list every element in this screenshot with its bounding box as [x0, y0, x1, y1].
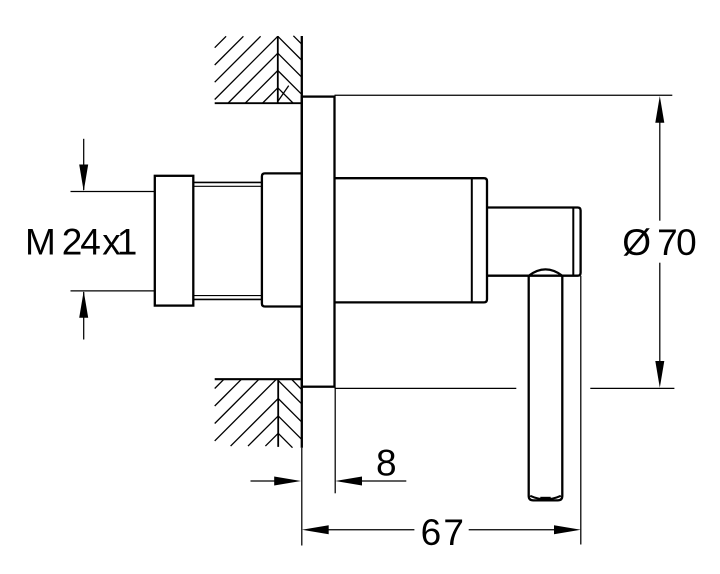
sleeve through wall	[262, 173, 302, 306]
dimension dia70: top extension line	[335, 94, 673, 96]
dimension 67: left line	[328, 529, 414, 531]
wall bottom: chevron centre line	[277, 379, 279, 447]
dimension M24x1: bottom arrowhead	[79, 291, 88, 318]
dimension M24x1: bottom arrow line	[83, 292, 85, 340]
dimension dia70: bottom extension line right segment	[590, 387, 674, 389]
handle arm end cap line	[572, 208, 574, 276]
lever bottom face inner dash	[540, 497, 550, 499]
lever bottom face arc	[530, 496, 561, 500]
wall section top: chevron strip hatch	[278, 36, 302, 103]
svg-text:70: 70	[657, 222, 696, 263]
svg-text:M: M	[25, 222, 56, 263]
wall face / plate left edge (thick part)	[301, 36, 303, 448]
dimension M24x1: top arrow line	[83, 139, 85, 190]
dimension 8: right line	[361, 480, 406, 482]
dimension 67: left arrowhead	[302, 525, 329, 534]
thread M24 outer line bottom	[193, 298, 262, 300]
dimension M24x1: bottom extension line	[71, 290, 155, 292]
thread M24 root line top	[193, 185, 262, 187]
svg-text:x1: x1	[102, 222, 136, 263]
svg-text:Ø: Ø	[622, 222, 651, 263]
wall section bottom: chevron strip hatch	[278, 379, 302, 448]
dimension 8: right arrowhead	[335, 477, 362, 486]
dimension dia70: top arrowhead	[655, 96, 664, 123]
dimension 67: right line	[469, 529, 555, 531]
wall face extension line down to 67 dim	[301, 448, 303, 546]
dimension 67: right extension line	[580, 276, 582, 545]
wall top: chevron centre line	[277, 36, 279, 103]
lever top saddle curve	[529, 269, 563, 275]
wall top: bottom border (hole edge)	[215, 102, 302, 104]
valve body cap separation line	[471, 178, 473, 302]
union nut on threaded spindle	[155, 176, 194, 306]
dimension 67: right arrowhead	[554, 525, 581, 534]
dimension dia70: lower line segment	[659, 263, 661, 364]
escutcheon plate (rosette)	[302, 97, 335, 387]
dimension M24x1: top arrowhead	[79, 165, 88, 192]
dimension dia70: bottom arrowhead	[655, 361, 664, 388]
dimension 8: right extension line	[334, 388, 336, 494]
dimension dia70: bottom extension line left segment	[335, 387, 517, 389]
wall section bottom: main hatch	[215, 379, 279, 446]
svg-text:24: 24	[62, 222, 101, 263]
svg-text:67: 67	[421, 512, 467, 553]
svg-text:8: 8	[376, 442, 397, 483]
wall section top: main hatch	[215, 36, 278, 103]
lever (vertical cylinder)	[529, 276, 563, 501]
dimension 8: left line	[251, 480, 276, 482]
valve body / handle hub	[335, 178, 488, 302]
thread M24 outer line top	[193, 181, 262, 183]
dimension dia70: upper line segment	[659, 120, 661, 221]
dimension M24x1: top extension line	[71, 191, 155, 193]
wall bottom: top border (hole edge)	[215, 378, 302, 380]
dimension 8: left arrowhead	[274, 477, 301, 486]
thread M24 root line bottom	[193, 295, 262, 297]
handle arm (horizontal cylinder)	[487, 208, 581, 276]
